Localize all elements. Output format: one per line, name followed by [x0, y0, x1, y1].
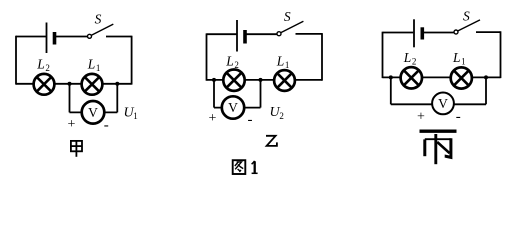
svg-text:-: - — [104, 118, 109, 134]
svg-text:L: L — [403, 50, 412, 65]
lamp L2 (circuit 甲) — [34, 74, 55, 95]
lamp L2 (circuit 乙) — [223, 70, 244, 91]
wire: voltmeter branch bottom (circuit 丙) — [391, 103, 486, 105]
voltmeter V3 (circuit 丙) — [432, 93, 454, 115]
svg-text:S: S — [463, 8, 470, 23]
lamp L1 (circuit 乙) — [274, 70, 295, 91]
switch S (circuit 乙) — [277, 21, 303, 36]
svg-text:-: - — [248, 112, 253, 128]
svg-text:L: L — [452, 50, 461, 65]
wire: voltmeter branch bottom (circuit 乙) — [214, 107, 261, 109]
switch S (circuit 丙) — [454, 20, 480, 34]
caption 图 (hanzi drawn as strokes) — [233, 160, 246, 174]
wire: switch to top-right corner (circuit 乙) — [296, 33, 323, 35]
svg-text:+: + — [417, 109, 425, 124]
wire: battery to switch (circuit 丙) — [423, 32, 454, 34]
wire: voltmeter branch bottom (circuit 甲) — [70, 111, 118, 113]
label U1 (circuit 甲) — [124, 105, 138, 121]
wire: bottom lamp row (circuit 甲) — [16, 83, 132, 85]
svg-text:L: L — [225, 54, 234, 69]
wire: voltmeter branch left drop (circuit 甲) — [69, 84, 71, 113]
junction dot right of L2 (circuit 乙) — [259, 78, 263, 82]
wire: right edge (circuit 丙) — [500, 31, 502, 78]
junction dot left of L2 (circuit 乙) — [212, 78, 216, 82]
caption 乙 (hanzi drawn as strokes) — [266, 136, 277, 146]
lamp L1 (circuit 丙) — [451, 67, 472, 88]
battery B1 (circuit 甲) — [47, 23, 55, 54]
svg-text:L: L — [276, 54, 285, 69]
wire: voltmeter branch left drop (circuit 乙) — [213, 80, 215, 108]
svg-text:+: + — [68, 117, 76, 132]
caption 甲 (hanzi drawn as strokes) — [71, 141, 82, 157]
wire: switch to top-right corner (circuit 丙) — [476, 31, 501, 33]
battery B3 (circuit 丙) — [414, 19, 422, 47]
wire: bottom lamp row (circuit 丙) — [383, 76, 501, 78]
wire: top-left segment (circuit 丙) — [383, 32, 414, 34]
svg-text:2: 2 — [412, 56, 417, 66]
svg-text:1: 1 — [133, 111, 138, 121]
wire: right edge (circuit 乙) — [321, 33, 323, 81]
svg-text:V: V — [228, 100, 238, 115]
lamp L2 (circuit 丙) — [401, 67, 422, 88]
wire: right edge (circuit 甲) — [131, 36, 133, 85]
voltmeter V1 (circuit 甲) — [82, 101, 105, 124]
wire: voltmeter branch right drop (circuit 甲) — [116, 84, 118, 113]
caption 丙 (hanzi drawn as strokes) — [420, 131, 457, 164]
label L1 (circuit 丙) — [452, 50, 466, 66]
wire: voltmeter branch left drop (circuit 丙) — [390, 77, 392, 104]
label L2 (circuit 乙) — [225, 54, 239, 70]
wire: battery to switch (circuit 甲) — [55, 36, 88, 38]
svg-text:2: 2 — [279, 111, 284, 121]
wire: top-left segment (circuit 甲) — [16, 36, 46, 38]
label L2 (circuit 甲) — [36, 57, 50, 73]
label U2 (circuit 乙) — [270, 105, 284, 121]
battery B2 (circuit 乙) — [237, 20, 245, 52]
junction dot right of L1 (circuit 甲) — [115, 82, 119, 86]
svg-text:2: 2 — [234, 60, 239, 70]
wire: left edge (circuit 丙) — [382, 32, 384, 78]
svg-text:1: 1 — [461, 56, 466, 66]
lamp L1 (circuit 甲) — [82, 74, 103, 95]
wire: bottom lamp row (circuit 乙) — [207, 79, 323, 81]
svg-text:-: - — [456, 109, 461, 125]
wire: battery to switch (circuit 乙) — [246, 33, 278, 35]
label L1 (circuit 甲) — [87, 57, 101, 73]
switch S (circuit 甲) — [88, 24, 114, 38]
wire: voltmeter branch right drop (circuit 乙) — [260, 80, 262, 108]
wire: switch to top-right corner (circuit 甲) — [106, 36, 132, 38]
wire: left edge (circuit 甲) — [15, 36, 17, 85]
svg-text:S: S — [284, 9, 291, 24]
svg-text:1: 1 — [96, 63, 101, 73]
wire: top-left segment (circuit 乙) — [207, 33, 237, 35]
junction dot right of L1 (circuit 丙) — [484, 75, 488, 79]
wire: voltmeter branch right drop (circuit 丙) — [485, 77, 487, 104]
junction dot left of L1 (circuit 甲) — [68, 82, 72, 86]
svg-text:V: V — [88, 105, 98, 120]
svg-text:S: S — [95, 11, 102, 26]
label L1 (circuit 乙) — [276, 54, 290, 70]
svg-text:2: 2 — [45, 63, 50, 73]
label L2 (circuit 丙) — [403, 50, 417, 66]
voltmeter V2 (circuit 乙) — [222, 96, 244, 118]
junction dot left of L2 (circuit 丙) — [389, 75, 393, 79]
svg-text:L: L — [87, 57, 96, 72]
svg-text:L: L — [36, 57, 45, 72]
svg-text:V: V — [438, 96, 448, 111]
caption figure number 1 — [252, 161, 258, 173]
wire: left edge (circuit 乙) — [206, 33, 208, 80]
svg-text:1: 1 — [285, 60, 290, 70]
svg-text:+: + — [209, 111, 217, 126]
